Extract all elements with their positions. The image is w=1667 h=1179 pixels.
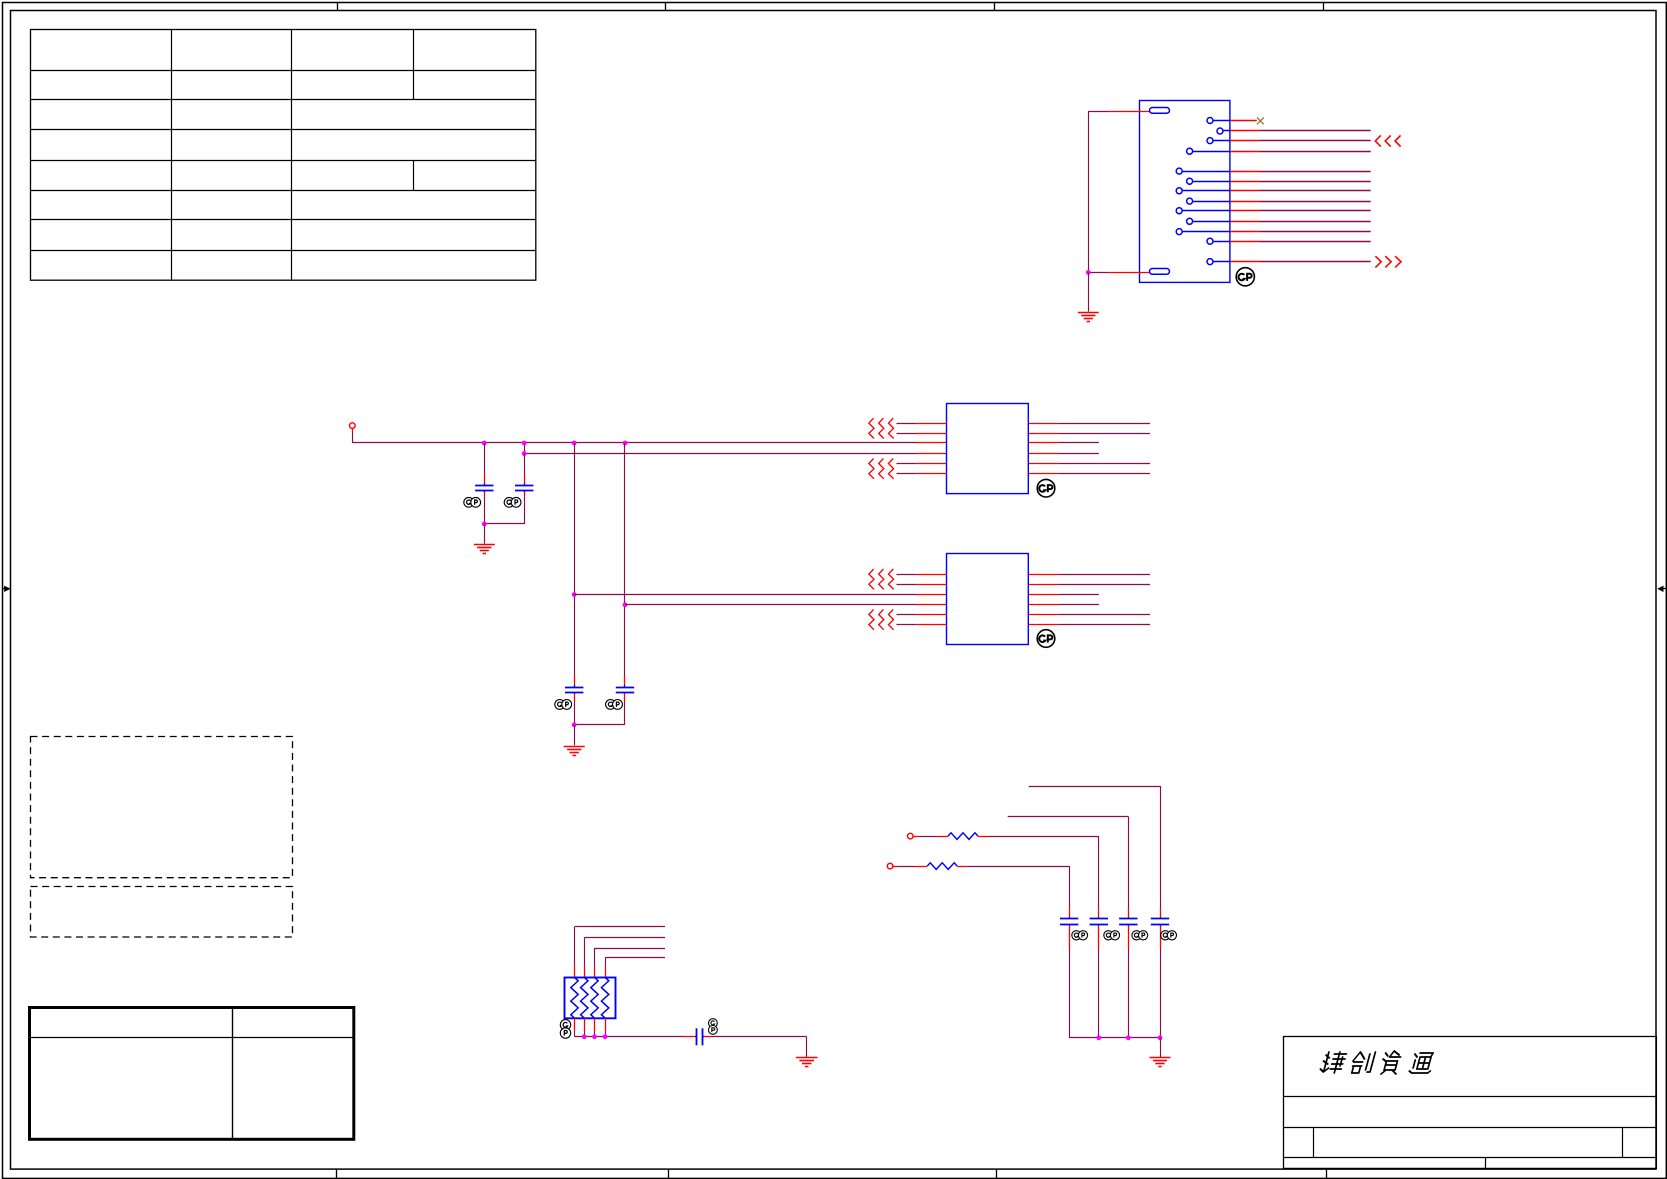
- ground C1 C2: [474, 545, 495, 554]
- connector J1 mounting slot bottom: [1150, 269, 1170, 275]
- top border zone ticks: [338, 2, 1324, 10]
- connector J1 body: [1140, 101, 1230, 283]
- U2 right pin wires: [1029, 575, 1150, 625]
- wire RP1 common bus: [575, 1031, 684, 1037]
- junction net1 at riser1: [572, 441, 577, 446]
- U2 left pin stubs: [897, 575, 948, 625]
- wire pin2 net: [1230, 130, 1370, 132]
- wire riser1: [574, 443, 576, 676]
- bottom border zone ticks: [337, 1169, 1327, 1178]
- ground C3 C4: [564, 747, 585, 756]
- no-connect X pin1: [1257, 118, 1264, 125]
- junction riser2 tap: [623, 602, 628, 607]
- wire feed A: [1029, 786, 1161, 917]
- output chevrons pin13: [1375, 256, 1401, 267]
- label C13: [1161, 931, 1177, 940]
- wire RP1 pin2: [584, 938, 665, 978]
- wire RP1 pin3: [595, 948, 666, 978]
- revision history table: [31, 30, 536, 281]
- wire pin9 net: [1230, 210, 1370, 212]
- junction net2 start: [522, 451, 527, 456]
- title block: [1284, 1037, 1657, 1169]
- label C12: [1132, 931, 1148, 940]
- wire net4 horizontal: [625, 604, 947, 606]
- wire C3 to ground: [574, 725, 576, 746]
- label C10: [1072, 931, 1088, 940]
- wire pin4 net: [1230, 151, 1370, 153]
- wire net1 drop: [352, 428, 354, 443]
- U1 squiggles bottom: [869, 458, 894, 478]
- connector J1 mounting slot top: [1150, 108, 1170, 114]
- capacitor C1: [475, 443, 493, 524]
- capacitor C11: [1090, 917, 1108, 1038]
- net port R2: [887, 863, 893, 869]
- U2 squiggles bottom: [869, 609, 894, 629]
- company logo text: [1319, 1051, 1435, 1074]
- capacitor C3: [565, 676, 583, 725]
- wire feed B: [1008, 817, 1129, 917]
- net port P1: [350, 423, 356, 429]
- junction RP1 pin4: [603, 1034, 608, 1039]
- wire shield bottom: [1088, 272, 1149, 274]
- left border center arrow: [2, 586, 11, 592]
- ground connector shield: [1078, 313, 1099, 322]
- label C4: [606, 700, 623, 710]
- wire pin10 net: [1230, 221, 1370, 223]
- wire C14 to ground: [712, 1037, 807, 1057]
- label C11: [1104, 931, 1120, 940]
- wire bus to ground: [1160, 1038, 1162, 1057]
- wire cap bus: [1069, 1037, 1160, 1039]
- capacitor C2: [484, 454, 533, 524]
- label C1: [464, 497, 481, 507]
- wire C1 to ground: [484, 524, 486, 544]
- capacitor C14: [683, 1028, 712, 1045]
- right border center arrow: [1657, 586, 1666, 592]
- label RP1: [560, 1020, 570, 1039]
- wire shield top: [1088, 111, 1149, 113]
- junction bus C11: [1096, 1035, 1101, 1040]
- wire pin5 net: [1230, 171, 1370, 173]
- wire to ground: [1088, 272, 1090, 311]
- junction C3 C4 gnd: [572, 722, 577, 727]
- input chevrons pin3: [1375, 135, 1400, 146]
- net port R1: [908, 833, 914, 839]
- resistor R1: [913, 833, 1099, 917]
- label C14: [709, 1019, 718, 1035]
- resistor pack RP1 elements: [571, 977, 609, 1018]
- wire pin7 net: [1230, 190, 1370, 192]
- RP1 bottom stubs: [575, 1018, 606, 1031]
- GP marker connector: [1236, 268, 1254, 286]
- wire riser2: [624, 443, 626, 676]
- junction net1 at C2: [522, 441, 527, 446]
- label C2: [504, 497, 521, 507]
- capacitor C12: [1119, 917, 1137, 1038]
- capacitor C13: [1151, 917, 1169, 1038]
- wire RP1 pin4: [605, 958, 665, 978]
- junction shield node: [1086, 270, 1091, 275]
- U1 right pin wires: [1029, 424, 1150, 474]
- wire pin8 net: [1230, 201, 1370, 203]
- wire pin6 net: [1230, 181, 1370, 183]
- GP marker U1: [1037, 479, 1055, 497]
- junction bus C13: [1158, 1035, 1163, 1040]
- junction riser1 tap: [572, 592, 577, 597]
- junction RP1 pin2: [582, 1034, 587, 1039]
- capacitor C10: [1060, 917, 1078, 1038]
- wire pin11 net: [1230, 231, 1370, 233]
- wire pin13 net: [1230, 261, 1370, 263]
- U1 left pin stubs: [897, 424, 948, 474]
- approval block: [30, 1008, 355, 1140]
- wire pin1 stub: [1230, 120, 1256, 122]
- capacitor C4: [574, 676, 634, 725]
- label C3: [555, 700, 572, 710]
- junction C1 C2 gnd: [482, 522, 487, 527]
- wire pin3 net: [1230, 140, 1370, 142]
- transformer U2 body: [947, 554, 1029, 645]
- ground cap bus: [1150, 1058, 1171, 1067]
- dashed note box 1: [31, 737, 293, 878]
- wire net1 horizontal: [352, 442, 947, 444]
- resistor pack RP1 body: [565, 978, 616, 1019]
- U2 squiggles top: [869, 569, 894, 589]
- wire net3 horizontal: [574, 594, 947, 596]
- junction net1 at riser2: [623, 441, 628, 446]
- wire net2 horizontal: [524, 443, 947, 454]
- dashed note box 2: [31, 887, 293, 938]
- transformer U1 body: [947, 404, 1029, 494]
- connector J1 pins: [1176, 118, 1230, 265]
- U1 squiggles top: [869, 418, 894, 438]
- wire shield left vertical: [1088, 111, 1090, 272]
- resistor R2: [893, 863, 1070, 917]
- junction net1 at C1: [482, 441, 487, 446]
- GP marker U2: [1037, 630, 1055, 648]
- wire RP1 pin1: [575, 927, 666, 978]
- wire pin12 net: [1230, 241, 1370, 243]
- junction RP1 pin3: [592, 1034, 597, 1039]
- ground C14: [796, 1058, 818, 1067]
- junction bus C12: [1126, 1035, 1131, 1040]
